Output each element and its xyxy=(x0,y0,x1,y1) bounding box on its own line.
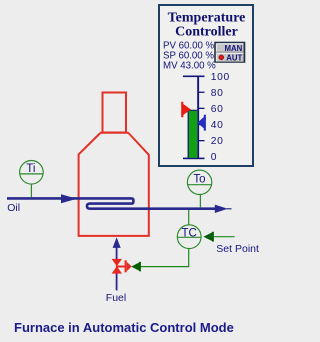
MAN button xyxy=(216,44,243,52)
valve actuator wedge xyxy=(127,262,132,271)
svg-text:MV 43.00 %: MV 43.00 % xyxy=(163,61,216,72)
green level bar xyxy=(188,110,198,158)
oil outlet arrowhead xyxy=(215,205,228,213)
valve actuator stem xyxy=(116,266,125,268)
svg-text:TC: TC xyxy=(182,227,197,239)
svg-text:20: 20 xyxy=(211,136,224,147)
Ti chord xyxy=(20,173,44,175)
TC chord xyxy=(177,236,201,238)
blue MV pointer xyxy=(197,115,206,131)
furnace chimney xyxy=(103,93,127,133)
svg-text:To: To xyxy=(193,173,205,185)
svg-text:60: 60 xyxy=(211,104,224,115)
oil inlet pipe xyxy=(7,198,216,208)
tick 80 xyxy=(199,92,205,93)
instrument Ti circle xyxy=(20,161,44,185)
set point line xyxy=(212,236,235,238)
To stem xyxy=(199,195,201,208)
tick 20 xyxy=(199,140,205,141)
Ti stem xyxy=(30,184,32,197)
MAN/AUT button frame xyxy=(215,43,245,63)
TC top stem xyxy=(188,210,190,225)
svg-text:Furnace in Automatic Control M: Furnace in Automatic Control Mode xyxy=(14,320,234,335)
AUT LED xyxy=(219,55,224,60)
svg-text:80: 80 xyxy=(211,88,224,99)
valve command arrowhead xyxy=(131,262,140,271)
fuel riser line upper xyxy=(116,246,118,259)
valve actuator bar xyxy=(125,260,127,272)
thermometer bottom cap xyxy=(183,158,205,160)
svg-text:Temperature: Temperature xyxy=(168,10,246,25)
svg-text:Controller: Controller xyxy=(175,24,238,39)
controller output line xyxy=(141,249,189,267)
svg-text:Set Point: Set Point xyxy=(216,243,259,255)
control valve upper triangle xyxy=(112,259,122,266)
svg-text:40: 40 xyxy=(211,120,224,131)
fuel riser line lower xyxy=(116,273,118,290)
svg-text:MAN: MAN xyxy=(225,44,243,53)
svg-text:Fuel: Fuel xyxy=(106,292,126,304)
tick 60 xyxy=(199,108,205,109)
AUT button xyxy=(216,53,243,61)
svg-text:Ti: Ti xyxy=(26,163,35,175)
instrument To circle xyxy=(187,170,211,194)
controller panel frame xyxy=(159,5,253,166)
oil outlet arrow tail xyxy=(227,208,232,209)
furnace shoulder line xyxy=(100,132,129,134)
instrument TC circle xyxy=(177,225,201,249)
control valve lower triangle xyxy=(112,266,122,273)
To chord xyxy=(187,184,211,186)
svg-text:Oil: Oil xyxy=(7,202,20,214)
thermometer top cap xyxy=(183,76,205,78)
svg-text:AUT: AUT xyxy=(226,53,242,62)
tick 40 xyxy=(199,124,205,125)
furnace body outline xyxy=(79,133,149,236)
svg-text:100: 100 xyxy=(211,72,230,83)
svg-text:0: 0 xyxy=(211,152,217,163)
thermometer stem line xyxy=(197,76,199,159)
fuel riser arrowhead xyxy=(113,237,121,248)
red SP pointer xyxy=(181,102,191,117)
oil inlet arrowhead xyxy=(61,194,77,203)
set point arrowhead xyxy=(203,232,213,242)
